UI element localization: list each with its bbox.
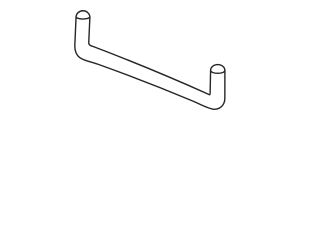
left port opening rim [76, 17, 90, 19]
tube silhouette outline [75, 11, 225, 110]
hose part line drawing [0, 0, 300, 121]
right port opening rim [211, 71, 225, 74]
